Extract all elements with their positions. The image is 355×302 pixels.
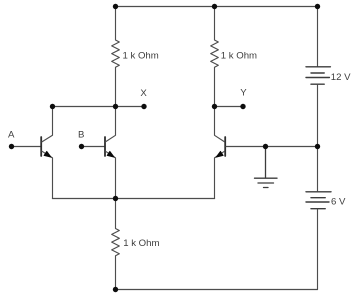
node right rail junction bbox=[315, 144, 320, 149]
label Y bbox=[240, 88, 247, 99]
svg-text:12 V: 12 V bbox=[331, 72, 351, 83]
wire common emitter rail bbox=[53, 198, 215, 200]
wire input A lead bbox=[12, 146, 41, 148]
resistor R1 1 k Ohm (left collector load) bbox=[112, 7, 120, 107]
transistor Q2 bbox=[105, 107, 116, 199]
label A bbox=[8, 129, 15, 140]
svg-text:A: A bbox=[8, 129, 15, 140]
node Y terminal bbox=[240, 104, 245, 109]
svg-text:1 k Ohm: 1 k Ohm bbox=[123, 51, 159, 62]
label X bbox=[140, 88, 147, 99]
label V1 value 12 V bbox=[331, 72, 351, 83]
label R3 value 1 k Ohm bbox=[123, 238, 159, 249]
node ground junction bbox=[263, 144, 268, 149]
transistor Q1 bbox=[41, 107, 52, 199]
svg-text:X: X bbox=[140, 88, 147, 99]
node top-left junction bbox=[113, 4, 118, 9]
wire node X rail bbox=[53, 106, 145, 108]
battery V1 12 V bbox=[306, 67, 330, 84]
node A terminal bbox=[9, 144, 14, 149]
node X terminal bbox=[141, 104, 146, 109]
wire right rail upper (top rail to 12V battery) bbox=[317, 7, 319, 67]
battery V2 6 V bbox=[306, 192, 331, 209]
svg-text:1 k Ohm: 1 k Ohm bbox=[221, 51, 257, 62]
node bottom-left junction bbox=[113, 287, 118, 292]
ground bbox=[255, 147, 278, 188]
resistor R3 1 k Ohm (emitter pulldown) bbox=[112, 199, 120, 290]
wire bottom rail bbox=[116, 289, 318, 291]
svg-text:6 V: 6 V bbox=[331, 197, 346, 208]
label R2 value 1 k Ohm bbox=[221, 51, 257, 62]
wire right rail middle (12V battery to ground node) bbox=[317, 85, 319, 147]
node Q1 collector junction bbox=[50, 104, 55, 109]
node top-right junction bbox=[315, 4, 320, 9]
resistor R2 1 k Ohm (right collector load) bbox=[211, 7, 219, 107]
label B bbox=[78, 129, 84, 140]
svg-text:1 k Ohm: 1 k Ohm bbox=[123, 238, 159, 249]
node Q2 collector junction bbox=[113, 104, 118, 109]
wire node Y rail bbox=[215, 106, 244, 108]
label R1 value 1 k Ohm bbox=[123, 51, 159, 62]
label V2 value 6 V bbox=[331, 197, 346, 208]
node top-middle junction bbox=[212, 4, 217, 9]
wire input B lead bbox=[82, 146, 105, 148]
svg-text:Y: Y bbox=[240, 88, 247, 99]
wire right rail lower (ground node through 6V battery to bottom rail) bbox=[317, 147, 319, 290]
transistor Q3 (mirrored) bbox=[215, 107, 226, 199]
node B terminal bbox=[79, 144, 84, 149]
wire Q3 base to ground node and right rail bbox=[226, 146, 318, 148]
node Y junction bbox=[212, 104, 217, 109]
node emitter rail junction bbox=[113, 196, 118, 201]
svg-text:B: B bbox=[78, 129, 84, 140]
wire top rail bbox=[116, 6, 318, 8]
